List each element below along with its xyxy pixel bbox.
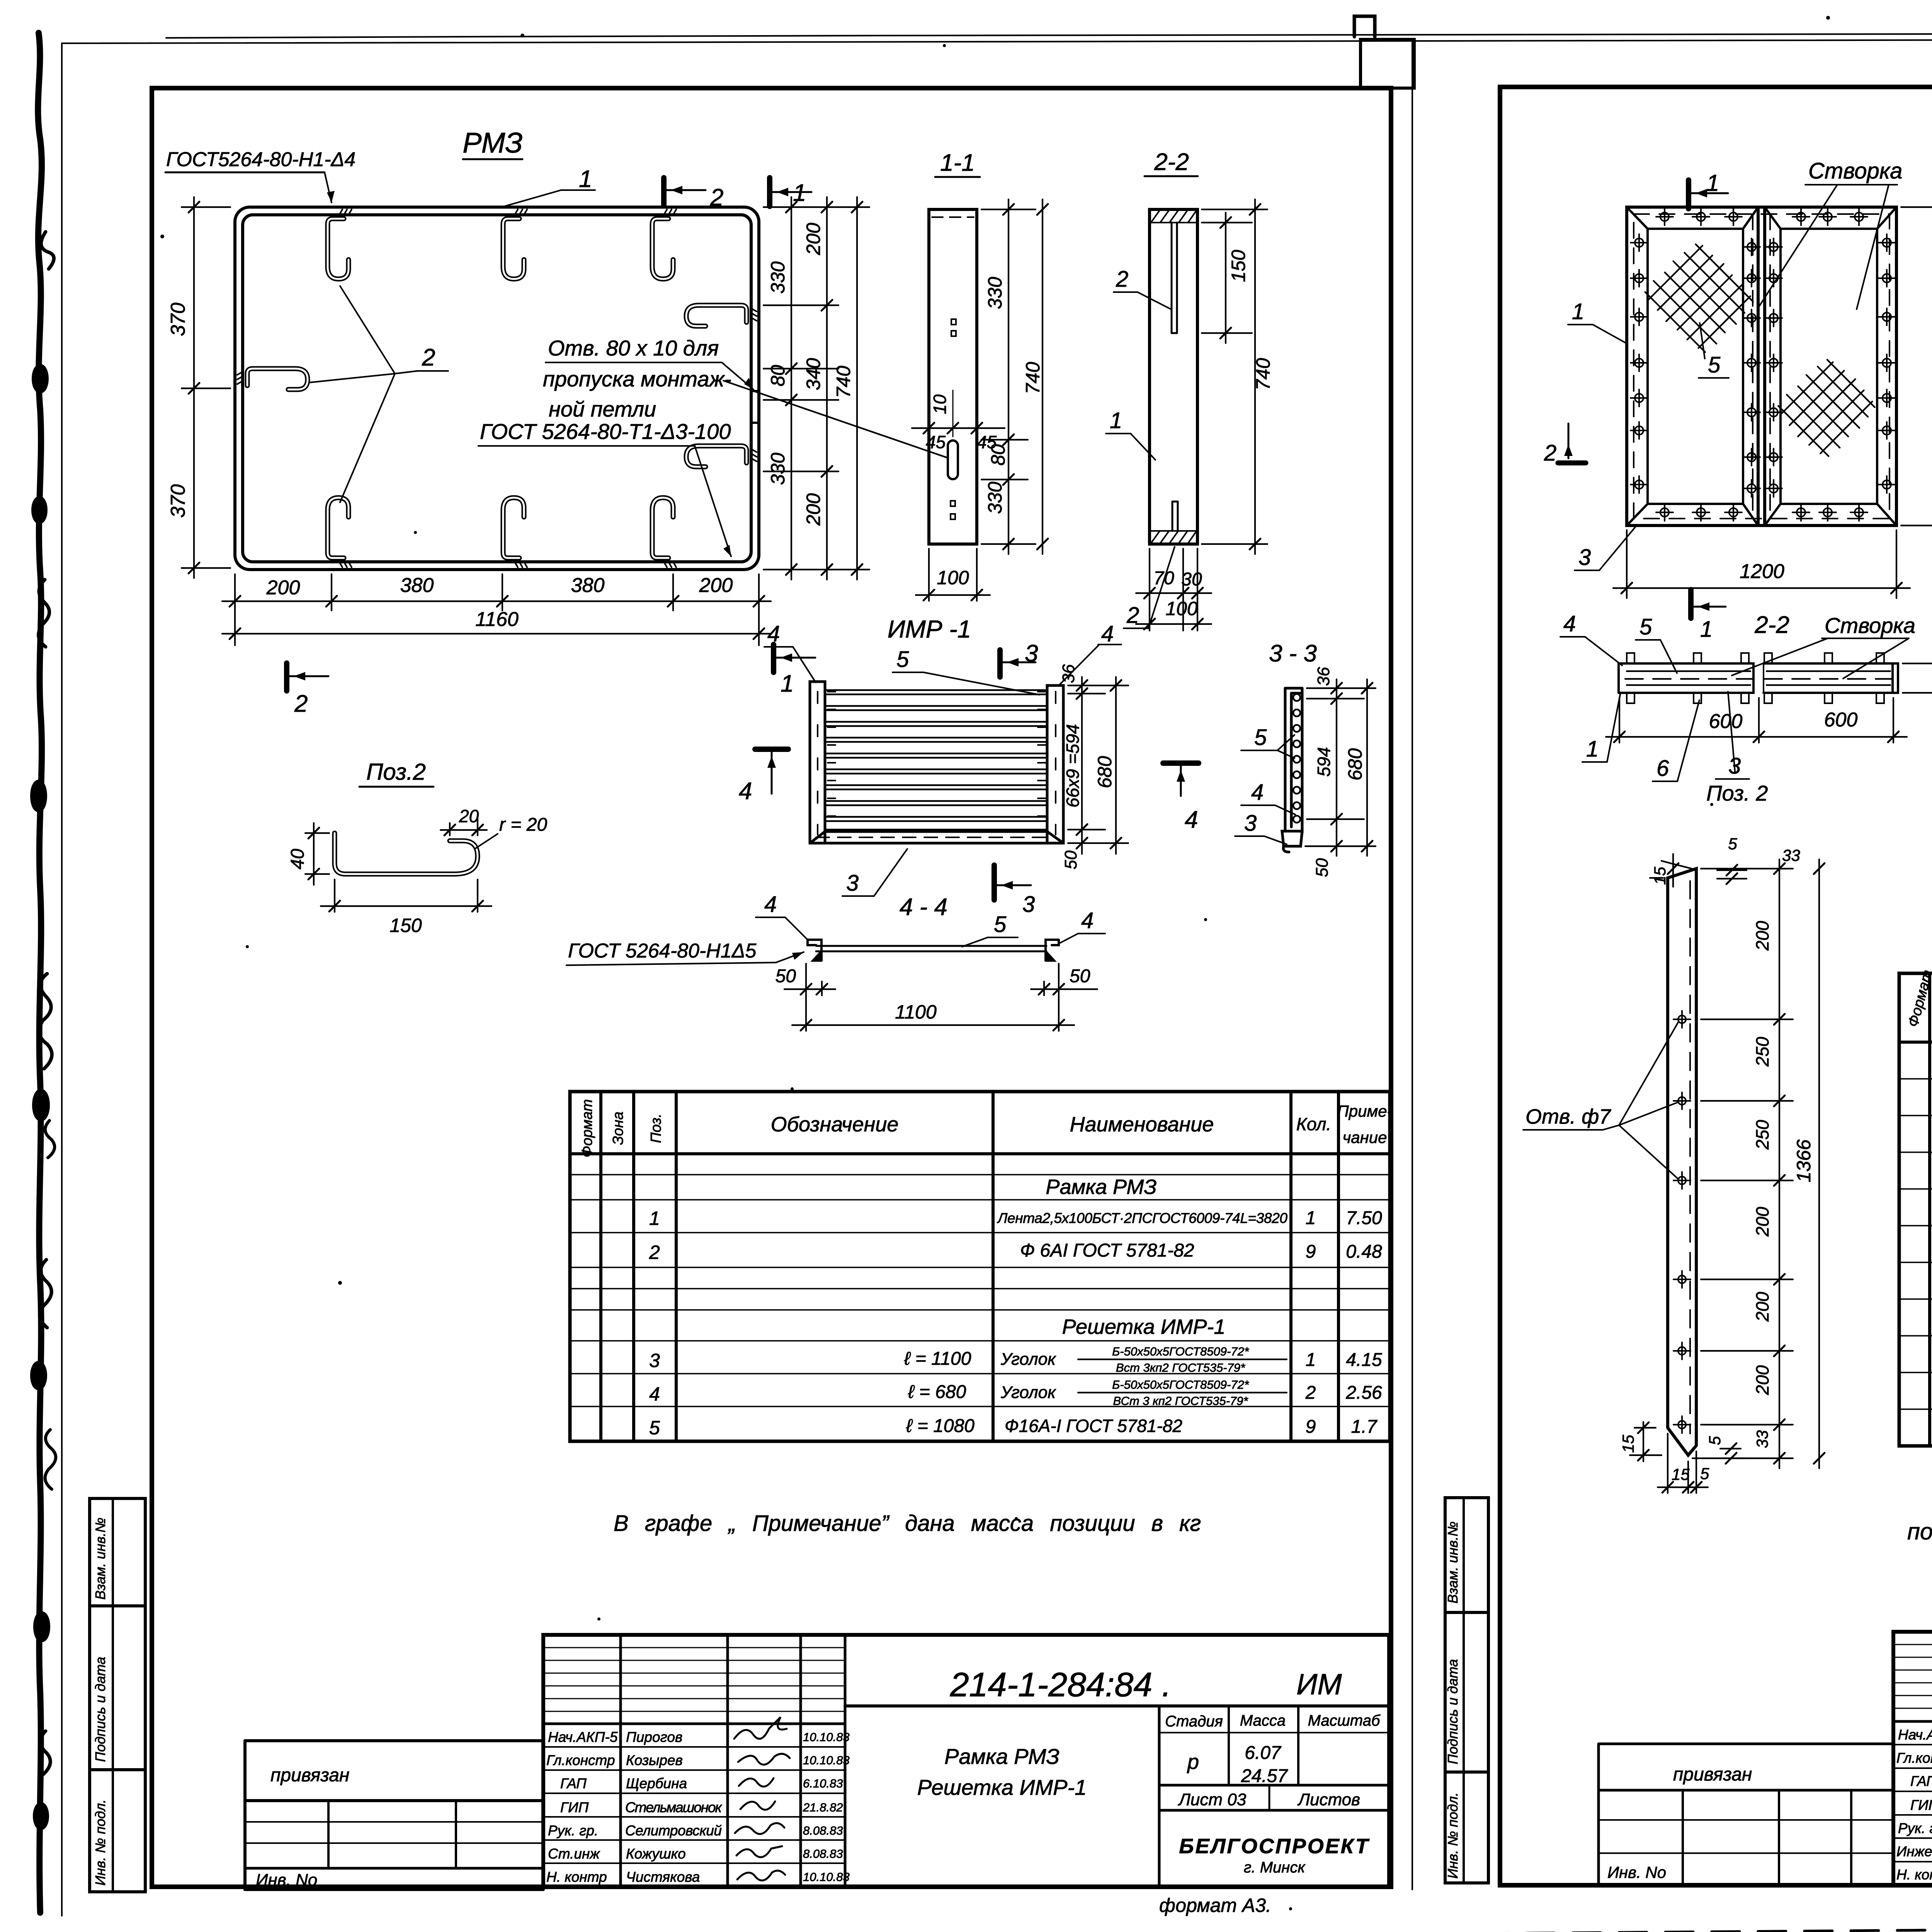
title РМЗ <box>463 127 523 159</box>
svg-text:1: 1 <box>781 670 794 697</box>
Поз.2 dim 20 <box>440 806 487 835</box>
svg-text:БЕЛГОСПРОЕКТ: БЕЛГОСПРОЕКТ <box>1179 1835 1369 1858</box>
svg-text:8.08.83: 8.08.83 <box>803 1824 843 1837</box>
svg-text:5: 5 <box>1639 614 1652 639</box>
svg-text:В графе „ Примечание” дана м: В графе „ Примечание” дана масса позиции… <box>614 1511 1201 1536</box>
Поз.2 strip right sheet <box>1668 869 1696 1455</box>
grating dim 680 <box>1094 677 1121 854</box>
svg-text:0.48: 0.48 <box>1346 1242 1382 1262</box>
svg-text:680: 680 <box>1094 756 1116 788</box>
door mesh patch left leaf <box>1639 237 1760 357</box>
section 3-3 title <box>1269 640 1317 667</box>
svg-text:привязан: привязан <box>1673 1764 1752 1785</box>
svg-text:Наименование: Наименование <box>1070 1113 1214 1136</box>
grating ИМР-1 left angle <box>810 682 835 843</box>
svg-text:200: 200 <box>699 574 733 597</box>
svg-text:Подпись и дата: Подпись и дата <box>92 1657 108 1762</box>
svg-text:1-1: 1-1 <box>940 150 975 176</box>
text ГОСТ 5264-80-Т1-Д3-100 <box>478 419 731 556</box>
left stamp doc number <box>950 1665 1342 1704</box>
section 2-2 dim 32 <box>1903 653 1932 703</box>
svg-text:370: 370 <box>167 484 189 518</box>
svg-text:100: 100 <box>1165 598 1198 619</box>
section 2-2 top weld hatch <box>1150 211 1197 223</box>
svg-text:Масса: Масса <box>1240 1712 1286 1729</box>
svg-text:4: 4 <box>764 892 777 917</box>
section 1-1 dim 330/80/330 <box>981 199 1036 554</box>
svg-text:6.10.83: 6.10.83 <box>803 1777 843 1790</box>
svg-text:10.10.83: 10.10.83 <box>803 1730 850 1744</box>
callout 4 section 4-4 left <box>756 892 808 940</box>
dim 330/80/330 right of РМЗ <box>764 197 869 580</box>
svg-text:Листов: Листов <box>1297 1790 1360 1809</box>
svg-text:10: 10 <box>930 394 950 414</box>
svg-text:4.15: 4.15 <box>1346 1350 1382 1370</box>
svg-text:Формат: Формат <box>579 1099 595 1158</box>
svg-text:Поз.2: Поз.2 <box>366 759 426 785</box>
svg-text:Н. контр: Н. контр <box>546 1869 607 1885</box>
hook 2 top-left <box>328 209 352 279</box>
door mesh patch right leaf <box>1772 353 1882 463</box>
svg-text:1200: 1200 <box>1740 560 1784 583</box>
section 2-2 body <box>1150 209 1197 544</box>
dim 1160 below РМЗ <box>222 608 771 639</box>
grating ИМР-1 rods <box>825 690 1047 830</box>
svg-text:Рук. гр.: Рук. гр. <box>1898 1820 1932 1836</box>
svg-text:4: 4 <box>649 1383 660 1405</box>
svg-text:250: 250 <box>1752 1120 1772 1150</box>
svg-text:5: 5 <box>649 1417 660 1439</box>
svg-text:Инв. № подл.: Инв. № подл. <box>1445 1793 1461 1879</box>
svg-text:7.50: 7.50 <box>1346 1208 1382 1228</box>
left table rows <box>649 1175 1382 1439</box>
svg-text:Зона: Зона <box>610 1112 626 1145</box>
svg-text:Створка: Створка <box>1808 158 1902 184</box>
section 3-3 dim 680 <box>1344 679 1372 856</box>
svg-text:4: 4 <box>767 621 780 646</box>
svg-text:Уголок: Уголок <box>1000 1383 1056 1402</box>
svg-text:1: 1 <box>1700 617 1713 642</box>
svg-text:330: 330 <box>984 277 1006 309</box>
Поз.2 bent bar <box>335 833 478 874</box>
section 2-2 hook edge view top <box>1172 223 1177 333</box>
svg-text:4: 4 <box>739 778 752 804</box>
left sheet thick frame <box>152 88 1391 1887</box>
section 2-2 bottom weld hatch <box>1150 531 1197 543</box>
svg-text:Инв. No: Инв. No <box>256 1871 317 1889</box>
frame РМЗ outline <box>235 207 759 570</box>
Поз.2 dim 150 <box>321 879 492 936</box>
svg-text:ГОСТ 5264-80-Т1-Δ3-100: ГОСТ 5264-80-Т1-Δ3-100 <box>480 419 731 444</box>
grating ИМР-1 bottom angle <box>810 832 1063 843</box>
svg-text:3: 3 <box>846 871 859 896</box>
svg-text:9: 9 <box>1306 1417 1316 1437</box>
callout 3 door bottom <box>1575 527 1635 570</box>
svg-text:Козырев: Козырев <box>626 1752 683 1768</box>
svg-text:Рамка РМЗ: Рамка РМЗ <box>944 1744 1060 1769</box>
door view outer <box>1627 207 1896 526</box>
svg-text:80: 80 <box>767 365 789 386</box>
svg-text:Стельмашонок: Стельмашонок <box>625 1799 723 1815</box>
section 1-1 inner marks <box>932 217 974 519</box>
svg-text:5: 5 <box>1708 352 1721 378</box>
svg-text:Кожушко: Кожушко <box>626 1846 686 1862</box>
section 2-2 dim 70/30 <box>1136 549 1211 631</box>
callout 4 grating top-right <box>1060 621 1121 685</box>
svg-text:2: 2 <box>1116 267 1128 292</box>
svg-text:Створка: Створка <box>1825 613 1915 638</box>
svg-text:Нач.АКП-5: Нач.АКП-5 <box>548 1729 618 1745</box>
callout 3 section 3-3 <box>1235 811 1287 844</box>
door section 2-2 strip <box>1619 663 1898 693</box>
svg-text:20: 20 <box>459 806 479 826</box>
scan artifact punch mark top middle <box>1354 16 1375 37</box>
section 2-2 hook edge view bottom <box>1172 502 1178 531</box>
callout 6 section 2-2 <box>1653 700 1699 781</box>
section 1-1 body <box>929 209 977 544</box>
dim 200/340/200 right of РМЗ <box>803 197 832 580</box>
callout 5 section 4-4 <box>962 912 1018 947</box>
svg-text:4: 4 <box>1563 611 1576 636</box>
svg-text:РМЗ: РМЗ <box>463 127 523 159</box>
svg-text:Инженер: Инженер <box>1896 1844 1932 1859</box>
svg-text:пропуска монтаж-: пропуска монтаж- <box>543 367 731 391</box>
section 4-4 right end angle <box>1046 940 1059 961</box>
callout 2 on section 2-2 <box>1114 267 1171 309</box>
note line 2 <box>1907 1519 1932 1544</box>
svg-text:2: 2 <box>422 344 435 371</box>
svg-text:Селитровский: Селитровский <box>625 1823 722 1838</box>
svg-text:33: 33 <box>1753 1430 1771 1448</box>
callout 1 on section 2-2 <box>1106 408 1155 460</box>
svg-text:Взам. инв.№: Взам. инв.№ <box>1445 1521 1461 1604</box>
svg-text:4: 4 <box>1251 780 1264 805</box>
svg-text:200: 200 <box>803 493 824 526</box>
section 3-3 dim 36/594/50 <box>1305 667 1376 877</box>
callout 4 section 2-2 <box>1560 611 1622 665</box>
svg-text:2-2: 2-2 <box>1754 612 1789 638</box>
svg-text:5: 5 <box>896 647 909 672</box>
hook 2 bottom-right <box>652 498 676 567</box>
svg-text:1: 1 <box>1306 1350 1316 1370</box>
svg-text:1366: 1366 <box>1793 1139 1815 1182</box>
svg-text:5: 5 <box>1728 835 1737 853</box>
hook 2 bottom-mid <box>503 498 527 567</box>
left stamp dates <box>803 1730 850 1884</box>
dim 200/380/380/200 below РМЗ <box>222 574 771 645</box>
РМЗ slot marks on right edge <box>751 391 759 423</box>
hook 2 top-mid <box>503 209 527 279</box>
weld label ГОСТ 5264-80-Н1-Д5 <box>566 940 804 965</box>
svg-text:2.56: 2.56 <box>1345 1383 1382 1403</box>
right stamp grid <box>1893 1632 1932 1885</box>
svg-text:ИМР -1: ИМР -1 <box>888 615 971 643</box>
svg-text:r = 20: r = 20 <box>499 815 547 835</box>
svg-text:ГАП: ГАП <box>560 1776 587 1791</box>
section 4-4 left end angle <box>808 940 821 961</box>
svg-text:Ф 6АI ГОСТ 5781-82: Ф 6АI ГОСТ 5781-82 <box>1020 1240 1194 1261</box>
svg-text:р: р <box>1187 1750 1199 1774</box>
svg-text:50: 50 <box>776 966 796 986</box>
svg-text:4: 4 <box>1185 806 1198 833</box>
Поз.2 label Отв ф7 <box>1523 1022 1679 1179</box>
svg-text:Взам. инв.№: Взам. инв.№ <box>92 1517 108 1600</box>
dim 370/370 left of РМЗ <box>167 197 230 578</box>
svg-text:Ст.инж: Ст.инж <box>548 1846 600 1862</box>
section 4-4 dim 50 right <box>1031 964 1097 1031</box>
left sheet thin border <box>62 41 1412 1916</box>
dim 740 right of РМЗ <box>833 197 862 580</box>
svg-text:ℓ = 1100: ℓ = 1100 <box>904 1349 971 1369</box>
hook 2 bottom-left <box>328 498 352 567</box>
svg-text:Решетка ИМР-1: Решетка ИМР-1 <box>917 1775 1087 1799</box>
callout 4 section 3-3 <box>1241 780 1295 815</box>
left margin label boxes <box>90 1498 145 1892</box>
door section 2-2 marker 1 <box>1691 590 1726 642</box>
svg-text:200: 200 <box>1752 1207 1772 1237</box>
svg-text:24.57: 24.57 <box>1241 1766 1288 1786</box>
svg-text:6: 6 <box>1656 756 1669 781</box>
формат А3 label <box>1159 1895 1271 1916</box>
svg-text:2: 2 <box>710 184 723 211</box>
svg-text:2: 2 <box>1305 1383 1316 1403</box>
svg-text:200: 200 <box>803 223 824 255</box>
svg-text:ной петли: ной петли <box>549 397 656 421</box>
svg-text:50: 50 <box>1061 850 1080 869</box>
door leaf inner frames <box>1627 207 1896 526</box>
svg-text:ГИП: ГИП <box>560 1799 589 1815</box>
svg-text:250: 250 <box>1752 1037 1772 1067</box>
svg-text:Лист 03: Лист 03 <box>1178 1790 1247 1809</box>
section marker 4 right <box>1163 763 1199 833</box>
svg-text:3: 3 <box>1025 640 1038 667</box>
section 1-1 dim 45/45/10 <box>912 390 1005 452</box>
right stamp signature rows <box>1896 1727 1932 1883</box>
callout 5 door mesh <box>1699 323 1729 378</box>
door dim 1200 <box>1613 530 1910 598</box>
svg-text:45: 45 <box>926 432 946 452</box>
svg-text:Приме-: Приме- <box>1337 1102 1392 1120</box>
left sheet top-right format box <box>1361 39 1414 88</box>
svg-text:50: 50 <box>1070 966 1090 986</box>
section marker 3 top <box>1000 640 1038 677</box>
svg-text:Щербина: Щербина <box>626 1776 687 1791</box>
section marker 1 top <box>770 178 811 206</box>
door bolts <box>1631 208 1895 521</box>
hook 2 right-lower <box>686 446 757 467</box>
callout 1 door left <box>1568 299 1628 344</box>
door dim 1400 <box>1901 197 1932 536</box>
left table fraction bars <box>1078 1359 1287 1393</box>
hook 2 left-side <box>237 369 308 389</box>
Поз.2 top dims 15/5/33 <box>1650 835 1800 887</box>
left stamp title <box>917 1744 1087 1799</box>
Поз.2 bottom dims 15/5 <box>1619 1422 1750 1493</box>
svg-text:66х9 =594: 66х9 =594 <box>1063 724 1083 808</box>
left spec table grid <box>570 1092 1390 1441</box>
Поз.2 dim 40 <box>287 823 329 885</box>
left stamp signatures <box>734 1717 790 1881</box>
svg-text:21.8.82: 21.8.82 <box>803 1801 843 1814</box>
svg-text:Рук. гр.: Рук. гр. <box>548 1823 598 1838</box>
svg-text:10.10.83: 10.10.83 <box>803 1753 850 1767</box>
svg-text:330: 330 <box>767 452 789 485</box>
Поз.2 label r=20 <box>475 815 547 849</box>
door dashed band lines <box>1634 214 1889 519</box>
svg-text:740: 740 <box>1252 358 1274 390</box>
right margin label boxes <box>1445 1498 1488 1883</box>
svg-text:3 - 3: 3 - 3 <box>1269 640 1317 667</box>
door section 2-2 title <box>1754 612 1789 638</box>
right привязан box <box>1599 1744 1893 1885</box>
svg-text:2: 2 <box>649 1242 660 1263</box>
svg-text:2: 2 <box>294 690 308 717</box>
svg-text:Лента2,5х100БСТ·2ПСГОСТ6009-74: Лента2,5х100БСТ·2ПСГОСТ6009-74L=3820 <box>997 1210 1287 1226</box>
left stamp stadia cells <box>1165 1712 1381 1876</box>
scan bottom dashed edge <box>43 1923 1932 1932</box>
hook 2 top-right <box>652 209 676 279</box>
section 2-2 dim 740 <box>1202 199 1274 554</box>
weld label ГОСТ 5264-80-Н1-Д4 <box>165 148 355 202</box>
svg-text:Ф16А-I ГОСТ 5781-82: Ф16А-I ГОСТ 5781-82 <box>1005 1416 1182 1436</box>
svg-text:1: 1 <box>649 1207 660 1229</box>
left table headers <box>579 1099 1393 1158</box>
Поз.2 chain 33/200/250/250/200/200/200/33 <box>1692 859 1793 1468</box>
svg-text:1160: 1160 <box>475 608 519 631</box>
svg-text:80: 80 <box>987 444 1009 466</box>
svg-text:15: 15 <box>1651 867 1669 885</box>
svg-text:33: 33 <box>1782 846 1800 864</box>
svg-text:Инв. № подл.: Инв. № подл. <box>92 1799 108 1886</box>
right table headers <box>1905 968 1932 1036</box>
svg-text:740: 740 <box>833 366 854 398</box>
svg-text:г. Минск: г. Минск <box>1244 1859 1306 1876</box>
callout 4 section 4-4 right <box>1060 908 1105 943</box>
svg-text:ГИП: ГИП <box>1910 1797 1932 1813</box>
section 1-1 dim 740 <box>1022 199 1048 554</box>
svg-text:1: 1 <box>579 166 592 192</box>
Поз.2 holes <box>1673 1011 1690 1433</box>
callout 5 section 2-2 <box>1636 614 1677 673</box>
callout 2 on section 2-2 bottom <box>1124 547 1175 628</box>
callout 1 frame band <box>499 166 595 208</box>
svg-text:594: 594 <box>1314 747 1334 777</box>
svg-text:1: 1 <box>793 180 806 206</box>
svg-text:380: 380 <box>571 574 605 597</box>
svg-text:Инв. No: Инв. No <box>1607 1863 1666 1881</box>
svg-text:380: 380 <box>400 574 434 597</box>
svg-text:Решетка ИМР-1: Решетка ИМР-1 <box>1062 1315 1226 1338</box>
svg-text:600: 600 <box>1709 710 1743 733</box>
svg-text:1: 1 <box>1306 1208 1316 1228</box>
svg-text:600: 600 <box>1824 709 1858 731</box>
svg-text:36: 36 <box>1059 664 1078 683</box>
svg-text:150: 150 <box>1228 250 1249 282</box>
Поз.2 title left sheet <box>359 759 434 787</box>
right sheet thick frame <box>1500 87 1932 1885</box>
section marker 2 top <box>664 178 723 211</box>
svg-text:Отв. ф7: Отв. ф7 <box>1526 1105 1611 1128</box>
svg-text:ГАП: ГАП <box>1910 1773 1932 1789</box>
svg-text:5: 5 <box>1700 1464 1709 1483</box>
svg-text:1: 1 <box>1572 299 1584 324</box>
svg-text:50: 50 <box>1313 858 1332 877</box>
callout 5 grating top <box>893 647 1039 695</box>
section marker 4 left <box>739 749 788 804</box>
svg-text:1: 1 <box>1706 170 1719 196</box>
section 4-4 title <box>900 894 947 920</box>
svg-text:2-2: 2-2 <box>1154 149 1189 175</box>
svg-text:740: 740 <box>1022 362 1044 394</box>
right sheet thin border <box>1412 39 1932 1909</box>
svg-text:1100: 1100 <box>895 1001 937 1023</box>
section 1-1 title <box>935 150 980 177</box>
svg-text:214-1-284:84 .: 214-1-284:84 . <box>950 1665 1171 1704</box>
section marker 1 door top <box>1689 170 1728 209</box>
grating dim 36/594/50 <box>1059 664 1128 869</box>
door section 2-2 bolts <box>1627 653 1884 703</box>
callout 4 grating top-left <box>764 621 816 682</box>
svg-text:15: 15 <box>1672 1465 1690 1483</box>
svg-text:Подпись и дата: Подпись и дата <box>1445 1659 1461 1764</box>
scan top edge line <box>166 32 1932 38</box>
svg-text:Вст 3кп2 ГОСТ535-79*: Вст 3кп2 ГОСТ535-79* <box>1116 1361 1245 1374</box>
svg-text:ВСт 3 кп2 ГОСТ535-79*: ВСт 3 кп2 ГОСТ535-79* <box>1113 1394 1248 1408</box>
svg-text:Пирогов: Пирогов <box>626 1729 682 1745</box>
section 2-2 title <box>1145 149 1198 176</box>
svg-text:5: 5 <box>994 912 1007 937</box>
svg-text:4 - 4: 4 - 4 <box>900 894 947 920</box>
svg-text:10.10.83: 10.10.83 <box>803 1870 850 1884</box>
svg-text:15: 15 <box>1619 1435 1637 1453</box>
svg-text:5: 5 <box>1706 1436 1724 1445</box>
callout 2 hooks <box>309 286 448 502</box>
svg-text:1: 1 <box>1110 408 1122 433</box>
callout 1 section 2-2 <box>1582 692 1621 762</box>
note В графе Примечание дана масса позиции в кг <box>614 1511 1201 1536</box>
svg-text:формат А3.: формат А3. <box>1159 1895 1271 1916</box>
section 3-3 bar <box>1282 688 1302 852</box>
svg-text:1.7: 1.7 <box>1351 1417 1378 1437</box>
section 4-4 dim 50 left <box>776 964 835 1031</box>
scan edge band left <box>33 33 56 1913</box>
left stamp grid <box>543 1635 1389 1887</box>
svg-text:70: 70 <box>1153 568 1174 588</box>
svg-text:ℓ = 680: ℓ = 680 <box>908 1382 966 1402</box>
svg-text:Б-50х50х5ГОСТ8509-72*: Б-50х50х5ГОСТ8509-72* <box>1112 1378 1249 1391</box>
svg-text:3: 3 <box>649 1350 660 1371</box>
svg-text:Чистякова: Чистякова <box>626 1869 700 1885</box>
section marker 2 bottom <box>287 663 328 717</box>
svg-text:Нач.Акп.5: Нач.Акп.5 <box>1898 1727 1932 1743</box>
svg-text:Н. контр.: Н. контр. <box>1896 1867 1932 1883</box>
svg-text:Кол.: Кол. <box>1296 1114 1331 1134</box>
svg-text:6.07: 6.07 <box>1245 1743 1282 1763</box>
svg-text:680: 680 <box>1344 748 1366 781</box>
callout 3 grating bottom <box>842 849 907 896</box>
svg-text:Масштаб: Масштаб <box>1308 1712 1381 1729</box>
svg-text:Рамка РМЗ: Рамка РМЗ <box>1046 1175 1156 1199</box>
label Створка door <box>1757 158 1902 309</box>
label Створка section 2-2 <box>1732 613 1915 679</box>
svg-text:4: 4 <box>1101 621 1114 646</box>
svg-text:Гл.констр: Гл.констр <box>546 1752 615 1768</box>
svg-text:100: 100 <box>937 567 969 588</box>
svg-text:200: 200 <box>266 577 300 599</box>
section 3-3 rod circles <box>1293 694 1300 823</box>
svg-text:3: 3 <box>1244 811 1257 836</box>
svg-text:1: 1 <box>1586 736 1599 762</box>
